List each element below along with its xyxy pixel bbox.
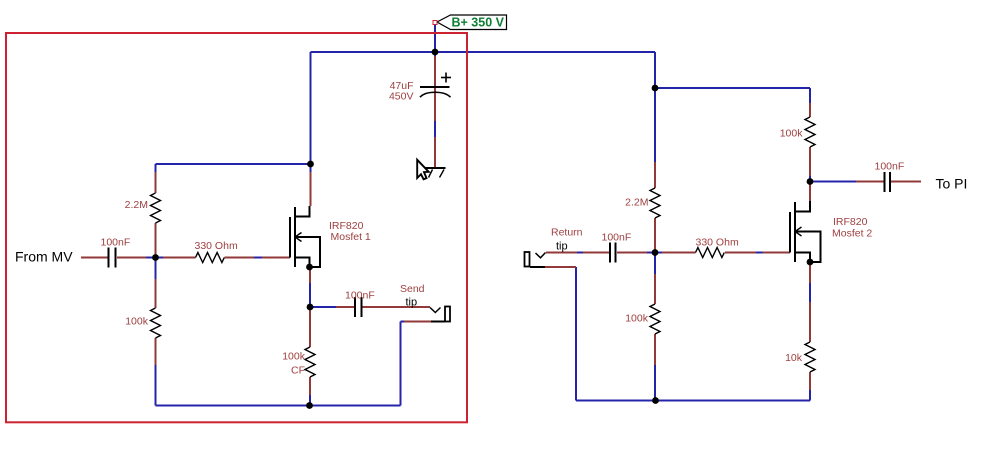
svg-text:Mosfet 1: Mosfet 1 <box>331 231 371 243</box>
svg-text:330 Ohm: 330 Ohm <box>195 240 238 252</box>
svg-text:330 Ohm: 330 Ohm <box>696 237 739 249</box>
svg-text:Return: Return <box>551 227 583 239</box>
svg-text:100nF: 100nF <box>345 290 375 302</box>
svg-text:To PI: To PI <box>936 176 968 192</box>
svg-text:100k: 100k <box>780 128 804 140</box>
svg-text:10k: 10k <box>785 352 803 364</box>
svg-text:IRF820: IRF820 <box>833 216 868 228</box>
svg-text:Send: Send <box>400 283 425 295</box>
svg-text:CF: CF <box>291 365 305 377</box>
svg-text:2.2M: 2.2M <box>125 199 148 211</box>
svg-text:2.2M: 2.2M <box>625 197 648 209</box>
svg-text:100nF: 100nF <box>875 161 905 173</box>
svg-text:Mosfet 2: Mosfet 2 <box>832 228 872 240</box>
svg-text:100k: 100k <box>125 316 149 328</box>
svg-text:From MV: From MV <box>15 249 73 265</box>
svg-text:B+ 350 V: B+ 350 V <box>452 16 505 30</box>
svg-text:100nF: 100nF <box>602 232 632 244</box>
svg-text:100k: 100k <box>282 351 306 363</box>
svg-text:450V: 450V <box>389 91 414 103</box>
svg-text:100nF: 100nF <box>101 237 131 249</box>
svg-text:tip: tip <box>406 297 418 309</box>
svg-text:100k: 100k <box>625 313 649 325</box>
svg-text:tip: tip <box>556 241 568 253</box>
